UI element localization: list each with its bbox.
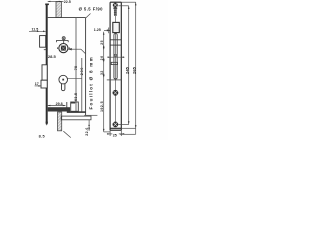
follower T-bar (56, 40, 68, 43)
svg-text:265: 265 (131, 66, 136, 74)
top rod (hatched bar) (56, 2, 61, 18)
lock case outline (48, 18, 86, 116)
svg-text:22.5: 22.5 (64, 0, 71, 4)
svg-text:11: 11 (114, 53, 118, 57)
follower side tabs (57, 47, 58, 49)
bottom leader diagonal (63, 131, 70, 137)
svg-text:78: 78 (74, 66, 78, 71)
latch opening (front view) (113, 22, 120, 32)
dimension 25 under strip (107, 130, 124, 136)
faceplate (side view) (45, 4, 49, 125)
latch bolt (side view) (40, 36, 46, 48)
long slot (114, 34, 117, 80)
middle dimension line (25/26/32/192.5) (104, 32, 110, 132)
svg-text:22.6: 22.6 (85, 127, 89, 136)
dimension 22.6 bottom (88, 120, 90, 131)
svg-text:8.5: 8.5 (39, 135, 45, 139)
extension line bottom right of case (84, 114, 97, 116)
svg-text:28.5: 28.5 (48, 54, 57, 59)
small notch in slot (111, 62, 117, 64)
cylinder axis extension line (68, 77, 82, 79)
strip cross lines (110, 39, 121, 41)
dimension 265 (120, 2, 136, 134)
leader to case corner (86, 14, 91, 18)
case vertical line 2 (81, 58, 83, 112)
deadbolt upper guide (side view) (42, 65, 47, 80)
case bottom right lines (67, 102, 78, 111)
svg-text:192.5: 192.5 (100, 101, 104, 112)
case bottom edge thick (67, 111, 86, 113)
strip centre line (114, 9, 116, 122)
middle screw (113, 90, 119, 96)
screw shank with threads (114, 9, 117, 16)
follower (handle hub) (59, 44, 68, 53)
slot serrations (114, 66, 117, 76)
dimension 11 across slot (108, 56, 125, 58)
bottom screw (113, 122, 119, 128)
rod bracket box (61, 116, 91, 120)
faceplate strip (front view) (110, 2, 121, 130)
case bottom thick band (48, 107, 70, 111)
bottom rod (hatched bar) (58, 112, 62, 131)
dimension 22.5 top (48, 0, 64, 2)
svg-text:63.5: 63.5 (74, 93, 78, 101)
euro cylinder hole (59, 75, 68, 90)
case inner vertical line (75, 18, 77, 112)
svg-text:Ø 5.5 F/90: Ø 5.5 F/90 (79, 6, 104, 11)
svg-text:25: 25 (100, 40, 104, 45)
svg-text:32: 32 (100, 70, 104, 75)
latch spring tick (44, 49, 47, 51)
follower top pin (62, 37, 65, 40)
svg-text:1.25: 1.25 (94, 28, 101, 32)
svg-text:Fouillot Ø 8 mm: Fouillot Ø 8 mm (89, 56, 94, 109)
dimension 245 (118, 6, 128, 125)
svg-text:26: 26 (100, 56, 104, 61)
deadbolt (side view) (41, 80, 47, 88)
arrows for 11 dim (108, 56, 124, 58)
svg-text:25: 25 (113, 133, 117, 137)
cylinder axis at strip (107, 79, 121, 81)
svg-text:245: 245 (124, 66, 129, 74)
cylinder centre mark (62, 79, 64, 81)
svg-text:200: 200 (80, 67, 84, 75)
top screw (113, 3, 118, 8)
faceplate bottom arrow (45, 122, 48, 126)
screw collar (113, 7, 117, 9)
leader arrow to follower (68, 48, 72, 50)
